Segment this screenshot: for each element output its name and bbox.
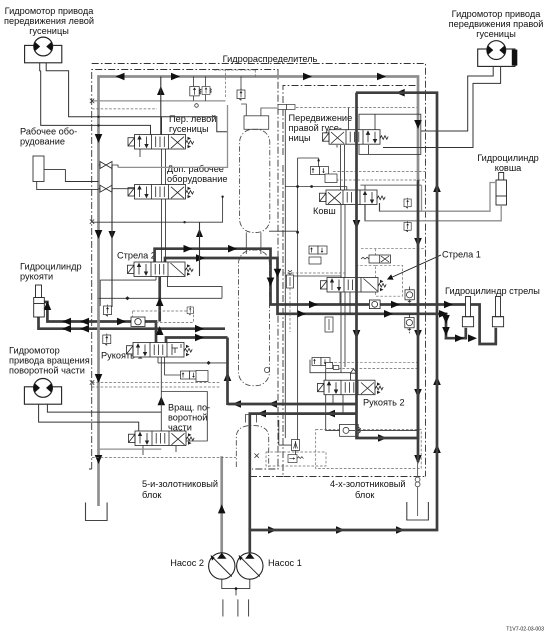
callout arrow boom1 [388,255,441,279]
boom1 pilot valve [361,255,391,263]
check valve 1 [100,162,112,169]
anti-cavitation valve bucket line A [404,198,411,209]
valve left travel [128,135,194,150]
svg-text:гусеницы: гусеницы [476,29,516,39]
valve bucket [320,190,386,205]
svg-text:рудование: рудование [20,137,65,147]
svg-text:4-х-золотниковый: 4-х-золотниковый [330,479,405,489]
small valve under boom2 [187,306,193,315]
bucket cylinder [496,173,507,206]
relief B arm line [103,334,111,346]
svg-text:Насос 2: Насос 2 [170,558,204,568]
center gallery capsule 3 [246,415,257,423]
comp relief right 2 [405,314,414,333]
svg-text:рукояти: рукояти [20,272,53,282]
reducing valve on pilot line x285 [287,270,294,288]
port x-marks on left edge [90,99,259,458]
5-spool block dash-dot box [89,70,278,470]
boom cylinder 1 [462,297,473,327]
pilot block valve bottom center [288,455,303,463]
distributor outer dash-dot top edge [92,64,426,477]
center gallery capsule 1 body [240,129,270,232]
svg-text:поворотной части: поворотной части [9,366,85,376]
boom2 dark bold pair to boom cylinders [155,249,496,344]
svg-text:Гидроцилиндр: Гидроцилиндр [477,153,539,163]
svg-text:T1V7-02-03-003: T1V7-02-03-003 [506,627,544,633]
right tank riser with restrictor [415,462,420,516]
svg-text:Стрела 1: Стрела 1 [442,250,481,260]
svg-text:Стрела 2: Стрела 2 [117,251,156,261]
relief A arm line [104,305,112,317]
arm2 lock valve [340,424,361,436]
comp relief right 1 [405,287,414,306]
arm cylinder [34,285,45,317]
svg-text:передвижения левой: передвижения левой [4,16,94,26]
swing motor [24,379,61,405]
anti-cavitation valve bucket line B [404,221,411,232]
right tank [407,502,429,520]
valve boom2 [128,262,194,277]
valve arm1 [127,343,193,358]
thin wiring left block [92,149,228,455]
svg-text:Рабочее обо-: Рабочее обо- [20,127,77,137]
pilot connector boxes [278,105,295,110]
arm cylinder dark bold pair [39,277,228,343]
pilot cluster boom1 [309,246,327,264]
svg-text:гусеницы: гусеницы [29,26,69,36]
small up arrow x161 top [157,77,165,96]
center gallery capsule 2 [239,250,270,386]
pilot cluster right travel [311,167,338,183]
vertical relief near center top [237,89,245,101]
check square on boom line [369,300,380,309]
check square on arm line [131,317,145,326]
flow arrows on bold lines [44,73,477,534]
svg-text:оборудование: оборудование [167,174,227,184]
thin riser x161 top [160,77,162,135]
svg-text:Гидромотор: Гидромотор [9,346,60,356]
svg-text:Гидромотор привода: Гидромотор привода [452,9,542,19]
svg-text:блок: блок [355,490,375,500]
4-spool block dash-dot box [248,86,426,477]
svg-text:гусеницы: гусеницы [169,124,209,134]
valve right travel [323,130,389,145]
svg-text:Ковш: Ковш [313,206,336,216]
pump2 gray bold network [99,77,419,554]
center gallery capsule 1 collar [241,104,277,254]
pilot cluster arm2 [312,358,339,370]
right travel motor wires [383,66,501,148]
svg-text:Гидроцилиндр: Гидроцилиндр [20,262,82,272]
valve arm2 [318,380,384,395]
pump 1 [237,553,263,579]
left tank [86,503,108,521]
svg-text:Пер. левой: Пер. левой [169,114,216,124]
swing motor wires [39,404,162,432]
svg-text:Гидромотор привода: Гидромотор привода [5,6,95,16]
svg-text:Рукоять 2: Рукоять 2 [363,398,405,408]
work equipment port [33,156,99,190]
svg-text:Доп. рабочее: Доп. рабочее [167,164,224,174]
valve swing [129,431,195,446]
thin wiring gray left block [92,101,228,449]
boom cylinder 2 [492,297,503,327]
svg-text:привода вращения: привода вращения [9,356,90,366]
left travel motor [25,37,62,63]
medium vertical returns left block [112,165,200,307]
pilot cluster arm1 [181,371,209,382]
svg-text:ницы: ницы [289,133,311,143]
dual relief valves top [190,87,212,96]
svg-text:блок: блок [142,490,162,500]
valve aux equipment [128,185,194,200]
pilot dashed lines [92,70,426,469]
svg-text:передвижения правой: передвижения правой [449,19,544,29]
bucket cylinder wires [360,183,501,221]
valve boom1 [321,278,387,293]
capsule 2 side port [264,367,269,372]
svg-text:ковша: ковша [495,163,522,173]
junction dots [97,116,419,374]
left travel motor wires [40,63,228,135]
pump1 dark bold supply network [228,93,438,553]
svg-text:Вращ. по-: Вращ. по- [168,403,210,413]
svg-text:5-и-золотниковый: 5-и-золотниковый [142,479,218,489]
svg-text:Гидроцилиндр стрелы: Гидроцилиндр стрелы [445,286,540,296]
svg-text:Передвижение: Передвижение [289,113,353,123]
svg-text:Насос 1: Насос 1 [268,558,302,568]
pump suction piping [222,579,250,616]
tiny valve right block bottom left [292,440,300,451]
check valve 2 [100,185,112,192]
right travel motor [478,41,518,67]
svg-text:Гидрораспределитель: Гидрораспределитель [223,54,318,64]
thin wiring right block [269,108,421,456]
svg-text:воротной: воротной [168,413,207,423]
pump 2 [209,553,235,579]
small comp x325 [325,317,333,332]
